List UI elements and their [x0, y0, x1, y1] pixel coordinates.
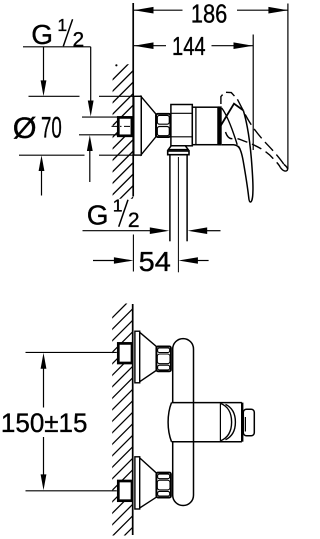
svg-text:G: G — [31, 19, 53, 50]
G1/2 thread dimension: up arrow to thread bottom — [87, 135, 93, 182]
in-wall G1/2 connection box (top view) — [118, 117, 132, 135]
stray hatch dot — [115, 64, 117, 66]
dimension 150±15 line and arrows — [41, 353, 47, 490]
extension line at body front x=253 — [252, 35, 254, 151]
dimension 150±15 extension line (bottom) — [26, 490, 117, 492]
mixer body capsule (bottom view) — [173, 339, 194, 506]
in-wall connection box bottom (bottom view) — [118, 481, 132, 501]
label G 1/2 (upper left) — [31, 15, 84, 52]
mixer body section 2 (top view) — [192, 107, 218, 145]
Ø70 top line (escutcheon top edge + extension) — [29, 95, 134, 97]
centerline of in-wall box — [112, 125, 133, 127]
mixer body section 1 (top view) — [171, 105, 192, 146]
outlet thread right arrow (pointing left at pipe) — [188, 227, 221, 234]
dimension 186 line — [134, 9, 288, 11]
svg-text:2: 2 — [73, 29, 85, 52]
wall hatching (top view) — [100, 52, 140, 242]
cartridge dome outline — [222, 108, 238, 145]
G1/2 thread top extension line — [82, 116, 133, 118]
dimension 54 arrows and line — [93, 257, 209, 264]
escutcheon plate bottom (bottom view) — [135, 457, 140, 509]
hex nut bottom (bottom view) — [156, 473, 171, 498]
Ø70 dimension: down arrow to escutcheon top — [41, 47, 47, 96]
lever blade upper edge (dashed raised position) — [237, 99, 284, 164]
G1/2 thread bottom extension line — [79, 134, 133, 136]
leader line of lower G 1/2 with arrow to outlet thread — [83, 227, 170, 234]
svg-text:2: 2 — [128, 209, 140, 232]
Ø70 bottom line (escutcheon bottom edge + extension) — [19, 154, 133, 156]
body section divider line — [195, 107, 197, 145]
svg-text:1: 1 — [113, 195, 123, 215]
hex nut top (bottom view) — [156, 346, 171, 371]
svg-text:144: 144 — [172, 31, 206, 61]
svg-text:Ø: Ø — [13, 112, 37, 145]
capsule right edge visible through cartridge — [193, 403, 195, 442]
escutcheon cone top (bottom view) — [140, 332, 157, 381]
svg-text:54: 54 — [139, 246, 171, 277]
outlet pipe centerline — [177, 157, 179, 272]
cartridge dome arc 1 (bottom view) — [220, 403, 231, 441]
dimension 150±15 extension line (top) — [26, 351, 117, 353]
lever tip arc (raised position) — [280, 164, 287, 171]
dimension 144 line — [134, 45, 253, 47]
body section 1 inner line (bottom) — [172, 136, 193, 138]
lever blade (solid position) — [238, 110, 253, 202]
body bottom edge to corner — [222, 145, 240, 149]
cartridge ring (thick) — [218, 106, 222, 145]
cartridge dome arc 2 (bottom view) — [226, 404, 236, 439]
escutcheon plate top (bottom view) — [135, 331, 140, 383]
G1/2 thread dimension: down arrow to thread top — [88, 47, 94, 117]
svg-text:G: G — [87, 200, 109, 231]
label G 1/2 (lower, outlet) — [87, 195, 140, 232]
outlet pipe walls — [170, 155, 187, 242]
Ø70 dimension: up arrow to escutcheon bottom — [39, 155, 45, 195]
escutcheon face plate (top view) — [134, 96, 142, 155]
outlet neck trapezoid — [168, 146, 188, 150]
svg-text:150±15: 150±15 — [1, 408, 88, 438]
escutcheon cone bottom (bottom view) — [140, 458, 157, 508]
svg-text:70: 70 — [41, 111, 62, 144]
svg-text:1: 1 — [57, 15, 67, 35]
dimension 54 left extension line — [132, 235, 134, 272]
wall face line + extension line of 186/144 dims — [132, 3, 134, 196]
svg-text:186: 186 — [191, 0, 227, 28]
escutcheon cone (top view) — [141, 97, 156, 155]
leader underline of upper G 1/2 — [23, 46, 91, 48]
cartridge end face line (thick) — [241, 403, 243, 442]
dimension 144 arrowheads — [134, 42, 253, 49]
dimension 186 arrowheads — [134, 7, 288, 14]
label Ø 70 — [13, 111, 62, 145]
lever blade lower edge (dashed raised position) — [226, 132, 281, 167]
in-wall connection box top (bottom view) — [118, 343, 132, 363]
lever knob (dashed raised position) — [221, 92, 238, 104]
cartridge cylinder silhouette (bottom view) — [168, 403, 242, 442]
outlet flange — [168, 151, 189, 155]
hex nut (top view) — [156, 114, 170, 137]
wall face line (bottom view) — [132, 304, 134, 535]
cartridge nub / handle stub (bottom view) — [243, 409, 254, 436]
cartridge nub inner line — [244, 417, 246, 432]
cartridge dome chord line — [219, 403, 221, 441]
lever knob (solid position) — [221, 104, 244, 126]
body section 1 inner line (top) — [172, 112, 193, 114]
extension line at lever tip x=288 — [287, 4, 289, 170]
wall hatching (bottom view) — [100, 290, 140, 539]
